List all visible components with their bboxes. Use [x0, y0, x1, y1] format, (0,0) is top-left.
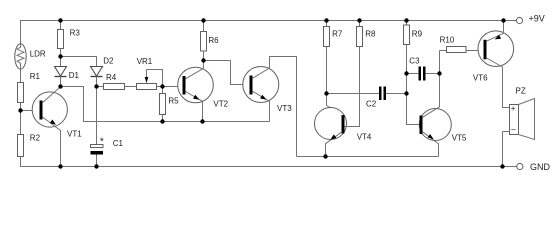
svg-text:+: +: [511, 104, 516, 113]
svg-text:R8: R8: [365, 29, 376, 38]
svg-text:GND: GND: [530, 162, 551, 172]
svg-text:+9V: +9V: [529, 14, 545, 24]
svg-text:D2: D2: [103, 56, 114, 65]
svg-text:R5: R5: [168, 96, 179, 105]
svg-text:VT5: VT5: [452, 134, 467, 143]
svg-text:VT2: VT2: [213, 99, 228, 108]
svg-text:VR1: VR1: [137, 57, 153, 66]
svg-text:C2: C2: [366, 99, 377, 108]
svg-text:–: –: [511, 125, 516, 134]
svg-text:VT6: VT6: [473, 73, 488, 82]
svg-text:R4: R4: [106, 73, 117, 82]
svg-text:C1: C1: [113, 139, 124, 148]
svg-text:R2: R2: [30, 133, 41, 142]
svg-text:D1: D1: [69, 71, 80, 80]
svg-text:VT4: VT4: [357, 133, 372, 142]
svg-text:R6: R6: [208, 36, 219, 45]
svg-text:VT1: VT1: [67, 129, 82, 138]
svg-text:PZ: PZ: [516, 87, 526, 96]
svg-text:R7: R7: [332, 29, 343, 38]
svg-text:R10: R10: [440, 35, 455, 44]
svg-text:R3: R3: [70, 29, 81, 38]
svg-text:LDR: LDR: [30, 50, 46, 59]
svg-text:C3: C3: [409, 56, 420, 65]
svg-text:R9: R9: [412, 29, 423, 38]
svg-text:R1: R1: [30, 72, 41, 81]
svg-text:*: *: [100, 137, 104, 148]
svg-text:VT3: VT3: [277, 104, 292, 113]
